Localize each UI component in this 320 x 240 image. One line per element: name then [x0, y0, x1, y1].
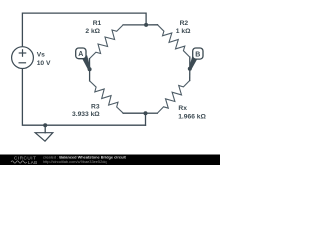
Vs plus sign: [19, 50, 26, 63]
svg-text:1.966 kΩ: 1.966 kΩ: [178, 113, 206, 120]
Vs minus sign: [19, 62, 25, 64]
node dot A: [88, 67, 92, 71]
svg-text:Rx: Rx: [178, 105, 187, 112]
resistor R3: [90, 81, 124, 113]
svg-text:LAB: LAB: [28, 160, 37, 165]
wire T to R2: [146, 24, 157, 26]
wire bottom node stem: [145, 113, 147, 125]
voltage source Vs circle: [12, 47, 34, 69]
resistor Rx: [157, 81, 189, 114]
svg-text:10 V: 10 V: [37, 60, 51, 67]
node dot bottom: [144, 111, 148, 115]
node dot T: [144, 23, 148, 27]
wire T to R1: [123, 24, 146, 26]
node A flag tail: [82, 56, 90, 70]
svg-text:Vs: Vs: [37, 52, 45, 59]
svg-text:1 kΩ: 1 kΩ: [176, 28, 191, 35]
node dot B: [188, 67, 192, 71]
wire top rail: [22, 13, 146, 47]
svg-text:R3: R3: [91, 104, 100, 111]
wire A to R3: [89, 69, 91, 81]
wire bottom return: [22, 68, 145, 125]
wire Rx to B: [189, 69, 191, 81]
ground stem: [44, 125, 46, 133]
footer bar: [0, 155, 220, 166]
node B flag tail: [189, 56, 197, 70]
svg-text:B: B: [195, 51, 200, 58]
svg-text:R2: R2: [180, 20, 189, 27]
node B flag box: [193, 48, 203, 59]
svg-text:R1: R1: [93, 20, 102, 27]
wire B to R2: [189, 57, 191, 69]
svg-text:http://circuitlab.com/c/9bae33: http://circuitlab.com/c/9bae33ee52dq: [43, 159, 107, 164]
svg-text:2 kΩ: 2 kΩ: [85, 28, 100, 35]
node A flag box: [76, 48, 86, 59]
ground triangle: [35, 133, 53, 142]
resistor R2: [158, 25, 190, 57]
footer logo wave: [11, 161, 27, 163]
resistor R1: [90, 25, 124, 59]
wire R3 to bottom node: [123, 112, 145, 114]
wire R1 to A: [89, 59, 91, 70]
wire bottom node to Rx: [146, 112, 158, 114]
svg-text:A: A: [78, 51, 83, 58]
svg-text:3.933 kΩ: 3.933 kΩ: [72, 111, 100, 118]
node dot ground junction: [43, 123, 47, 127]
